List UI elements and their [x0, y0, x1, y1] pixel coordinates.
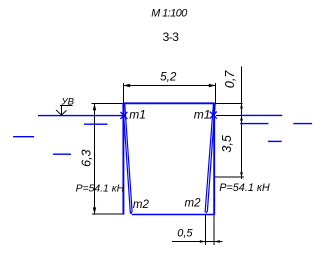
m2 level extension line left	[92, 213, 124, 215]
water level symbol stem	[61, 106, 63, 115]
dimension line 0,5	[172, 241, 222, 243]
left inclined pile right edge	[125, 103, 132, 214]
arrowhead 6,3 up	[93, 103, 96, 110]
water dash left 1	[84, 123, 108, 125]
arrowhead 3,5 up	[240, 116, 243, 121]
arrowhead 0,5 right (outside)	[214, 240, 220, 243]
svg-text:Р=54.1 кН: Р=54.1 кН	[76, 183, 125, 194]
water dash right 2	[293, 123, 312, 125]
svg-text:3-3: 3-3	[163, 30, 180, 44]
water dash left 2	[13, 136, 34, 138]
water dash right 1	[240, 123, 268, 125]
arrowhead 5,2 left	[124, 84, 131, 88]
scour level extension line right	[214, 176, 244, 178]
arrowhead 0,5 left (outside)	[200, 240, 206, 243]
svg-text:М 1:100: М 1:100	[151, 8, 187, 20]
extension line 5,2 right	[215, 83, 217, 103]
water dash left 3	[53, 153, 71, 155]
arrowhead 3,5 down	[240, 172, 243, 177]
arrowhead 5,2 right	[209, 84, 216, 88]
water level symbol underline	[60, 105, 73, 107]
ground line at pile tips (blue)	[132, 214, 215, 216]
water line right (blue)	[241, 114, 282, 116]
svg-text:6,3: 6,3	[80, 149, 94, 166]
right inclined pile right edge	[206, 103, 215, 213]
svg-text:Р=54.1 кН: Р=54.1 кН	[219, 182, 270, 194]
extension line 5,2 left	[123, 83, 125, 103]
arrowhead 6,3 down	[93, 207, 96, 214]
dimension line 0,7 / 3,5 vertical	[241, 67, 243, 180]
svg-text:m1: m1	[129, 108, 146, 122]
right inclined pile left edge	[205, 103, 213, 212]
svg-text:m2: m2	[133, 199, 150, 211]
svg-text:m1: m1	[194, 107, 211, 121]
arrowhead 0,7 up	[240, 104, 243, 109]
svg-text:0,5: 0,5	[177, 228, 193, 240]
svg-text:0,7: 0,7	[223, 70, 237, 88]
extension line 0,5 left	[205, 215, 207, 246]
cap level extension line left	[92, 103, 124, 105]
svg-text:УВ: УВ	[61, 97, 75, 108]
right pile vertical	[213, 103, 215, 215]
left inclined pile left edge	[123, 103, 130, 213]
cap level extension line right	[214, 103, 242, 105]
dimension line 5,2	[124, 85, 216, 87]
extension line 0,5 right	[213, 215, 215, 246]
pile cap beam line (blue)	[124, 102, 215, 104]
node m1 left cross	[120, 112, 127, 119]
m1 level extension line right	[216, 115, 243, 117]
svg-text:3,5: 3,5	[220, 135, 234, 152]
water line left (blue)	[38, 115, 124, 117]
node m1 right cross	[210, 112, 217, 119]
left pile vertical	[122, 103, 124, 214]
svg-text:5,2: 5,2	[160, 70, 177, 83]
water dash right 3	[268, 140, 282, 142]
svg-text:m2: m2	[185, 197, 202, 209]
dimension line 6,3	[94, 103, 96, 214]
water level symbol arrow	[56, 110, 67, 115]
